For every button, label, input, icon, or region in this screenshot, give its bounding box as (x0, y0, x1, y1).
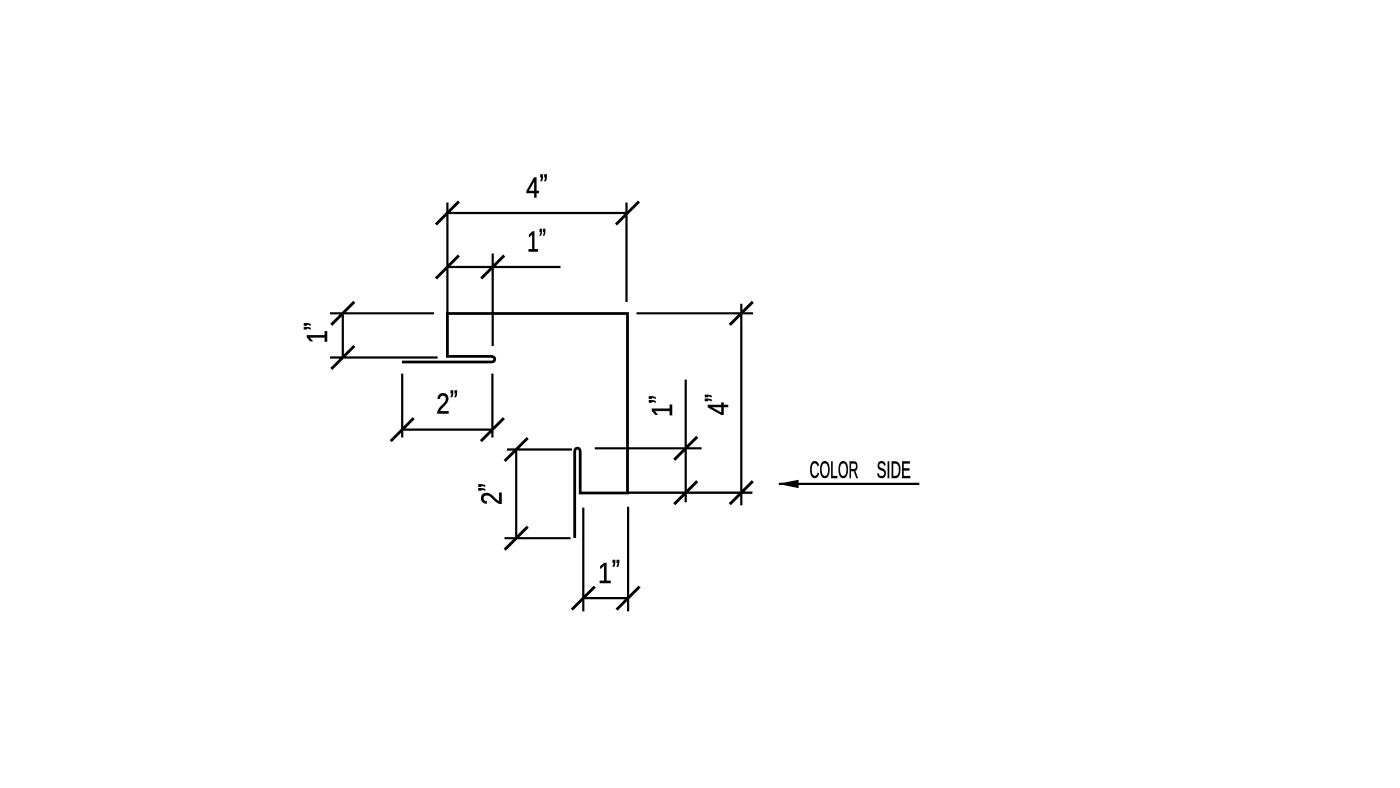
dimension 2in horizontal: left extension line (401, 374, 403, 438)
svg-text:2”: 2” (436, 386, 458, 421)
dimension 2in horizontal (top hem return): dimension line (402, 429, 492, 431)
dimension 2in horizontal: left tick (391, 418, 414, 441)
dimension 2in vertical: rotated label 2" (474, 484, 509, 506)
dimension 1in bottom: right extension line (627, 507, 629, 612)
dimension 4in top: right tick (616, 202, 639, 225)
dimension 1in top: dimension line (447, 266, 560, 268)
svg-text:1”: 1” (299, 322, 334, 343)
dimension 4in right: bottom extension line (628, 492, 753, 494)
dimension 1in left: dimension line (342, 313, 344, 358)
dimension 4in top: left extension line (446, 203, 448, 314)
dimension 4in top: right extension line (625, 203, 627, 303)
profile: sheet metal corner trim cross-section with hemmed edges (402, 314, 628, 539)
svg-text:4”: 4” (700, 394, 735, 416)
svg-text:2”: 2” (474, 484, 509, 506)
dimension 2in vertical: top tick (505, 438, 528, 461)
dimension 2in vertical: top extension line (507, 448, 572, 450)
svg-text:SIDE: SIDE (877, 457, 911, 484)
svg-text:1”: 1” (644, 396, 679, 418)
dimension 4in right: bottom tick (730, 481, 753, 504)
svg-text:1”: 1” (598, 555, 620, 590)
dimension 4in right: top tick (730, 302, 753, 325)
dimension 1in bottom: left extension line (582, 508, 584, 612)
dimension 4in top: dimension line (447, 212, 627, 214)
dimension 1in top: right extension line (492, 254, 494, 347)
dimension 1in right: top extension line (595, 447, 702, 449)
dimension 4in right: top extension line (637, 312, 754, 314)
dimension 1in left: top tick (331, 302, 354, 325)
dimension 1in right (bottom lip rise): dimension line (685, 380, 687, 503)
dimension 4in right: rotated label 4" (700, 394, 735, 416)
svg-text:4”: 4” (526, 170, 548, 205)
dimension 1in left: rotated label 1" (299, 322, 334, 343)
dimension 1in bottom: dimension line (583, 597, 628, 599)
dimension 2in horizontal: right extension line (491, 374, 493, 438)
svg-text:COLOR: COLOR (810, 457, 859, 484)
dimension 1in left: bottom tick (331, 346, 354, 369)
dimension 1in bottom: right tick (617, 587, 640, 610)
COLOR SIDE note: leader line (779, 483, 919, 485)
dimension 1in right: rotated label 1" (644, 396, 679, 418)
dimension 2in vertical (bottom hem leg): dimension line (515, 448, 517, 538)
dimension 1in right: top tick (674, 437, 697, 460)
dimension 2in horizontal: right tick (481, 418, 504, 441)
dimension 4in top: left tick (436, 202, 459, 225)
dimension 1in left: bottom extension line (330, 356, 438, 358)
dimension 1in left: top extension line (330, 312, 434, 314)
dimension 2in vertical: bottom extension line (505, 537, 571, 539)
dimension 1in bottom: left tick (572, 587, 595, 610)
dimension 1in top: left tick (436, 256, 459, 279)
dimension 4in right (vertical leg): dimension line (740, 304, 742, 506)
dimension 1in top: right tick (481, 256, 504, 279)
dimension 1in right: bottom tick (674, 481, 697, 504)
COLOR SIDE note: arrowhead pointing left (778, 480, 799, 488)
dimension 2in vertical: bottom tick (505, 527, 528, 550)
svg-text:1”: 1” (527, 224, 546, 259)
